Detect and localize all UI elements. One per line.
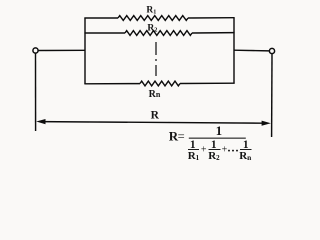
svg-text:Rn: Rn bbox=[149, 89, 161, 100]
formula R = 1 / (1/R1 + 1/R2 + ... + 1/Rn) bbox=[169, 123, 252, 162]
node left terminal bbox=[33, 48, 38, 53]
wire right bus to right terminal bbox=[234, 49, 269, 52]
dimension arrowhead right bbox=[262, 121, 271, 126]
wire left bus bbox=[84, 18, 86, 85]
wire top branch right of R1 bbox=[188, 17, 235, 19]
resistor Rn bbox=[140, 81, 180, 86]
wire bottom branch left of Rn bbox=[84, 83, 140, 85]
wire second branch left of R2 bbox=[84, 32, 125, 34]
formula main fraction bar bbox=[189, 138, 246, 139]
dimension arrowhead left bbox=[36, 119, 45, 124]
wire bottom branch right of Rn bbox=[180, 82, 235, 84]
wire left terminal drop bbox=[35, 53, 37, 131]
node right terminal bbox=[269, 48, 274, 53]
wire top branch left of R1 bbox=[84, 17, 118, 19]
svg-text:=: = bbox=[178, 129, 185, 143]
wire right bus bbox=[233, 18, 235, 84]
resistor R1 bbox=[118, 16, 188, 21]
ellipsis continuation dash-dot line bbox=[155, 42, 157, 76]
svg-text:···: ··· bbox=[227, 143, 239, 157]
svg-text:R: R bbox=[151, 110, 160, 122]
svg-text:+: + bbox=[201, 144, 207, 155]
dimension line R bbox=[41, 122, 265, 124]
wire left terminal to left bus bbox=[38, 49, 85, 51]
resistor R2 bbox=[125, 31, 192, 36]
wire second branch right of R2 bbox=[192, 32, 235, 34]
wire right terminal drop bbox=[271, 54, 273, 137]
svg-text:1: 1 bbox=[216, 123, 223, 138]
